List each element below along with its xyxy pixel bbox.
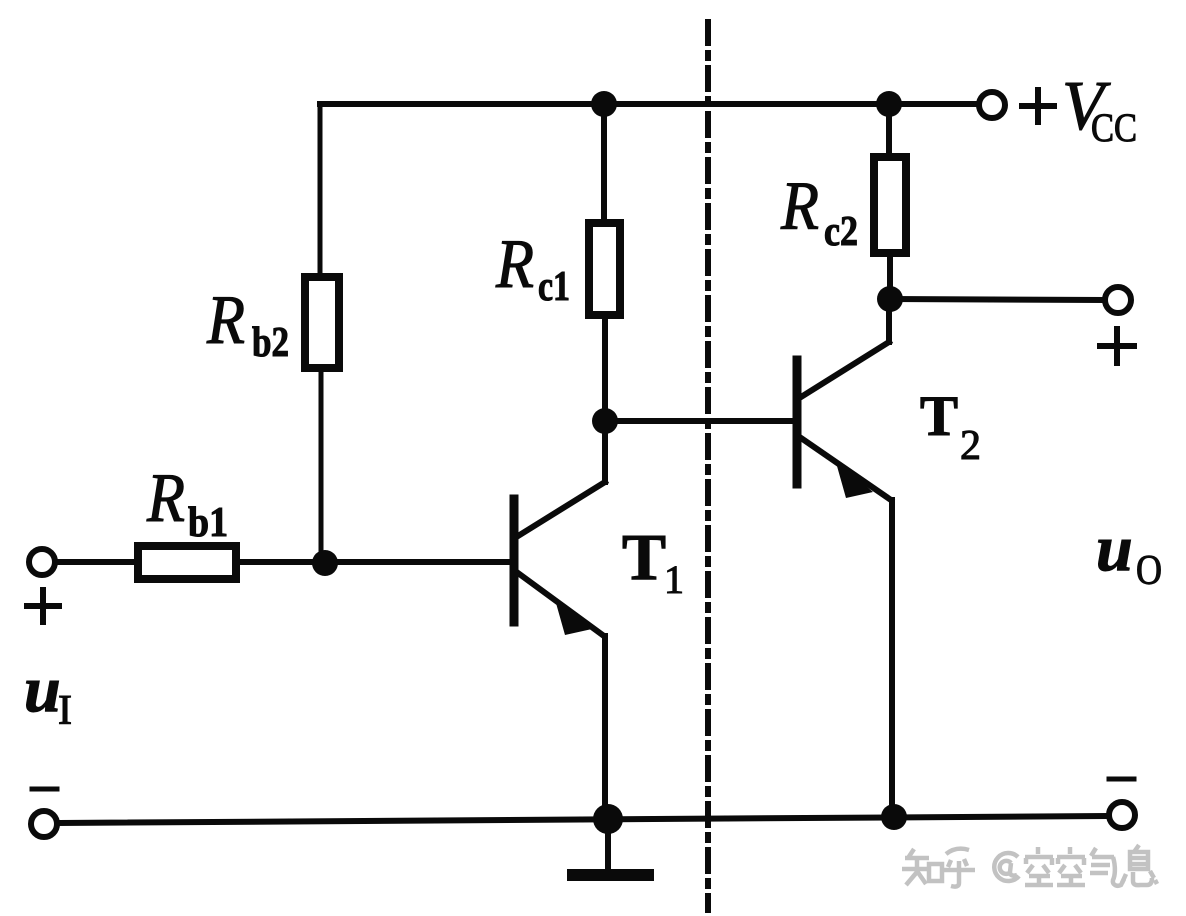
svg-text:R: R	[206, 282, 245, 359]
label T2	[920, 385, 981, 469]
transistor T2	[797, 342, 891, 500]
wire T2 collector up to output node	[886, 299, 892, 342]
resistor Rb1	[138, 546, 236, 579]
svg-text:R: R	[780, 168, 819, 244]
svg-text:I: I	[58, 688, 72, 734]
svg-text:O: O	[1136, 548, 1162, 594]
plus sign output	[1100, 329, 1134, 363]
wire Rc1 to node A	[602, 315, 608, 421]
svg-text:R: R	[495, 226, 534, 303]
terminal input minus	[31, 811, 57, 837]
terminal output minus	[1109, 802, 1135, 828]
wire top rail	[320, 101, 977, 107]
stage divider dash-dot line	[705, 22, 711, 910]
svg-text:c2: c2	[824, 209, 858, 255]
node A junction	[592, 408, 618, 434]
wire T1 collector to node A	[602, 421, 608, 482]
wire Rb1 to T1 base	[240, 559, 510, 565]
wire left branch from top rail down to Rb2	[318, 104, 323, 277]
label uO	[1096, 512, 1162, 594]
label Rb2	[206, 282, 289, 366]
svg-text:T: T	[920, 385, 958, 448]
wire node A to T2 base	[605, 418, 793, 424]
svg-text:2: 2	[960, 423, 981, 469]
terminal +Vcc	[979, 92, 1005, 118]
svg-text:u: u	[24, 653, 61, 726]
svg-text:R: R	[146, 460, 185, 537]
svg-text:T: T	[622, 521, 666, 594]
wire bottom rail	[60, 816, 1105, 823]
node output junction	[877, 286, 903, 312]
label Rb1	[146, 460, 228, 546]
svg-text:b1: b1	[188, 500, 228, 546]
label Rc1	[495, 226, 570, 310]
svg-text:CC: CC	[1091, 105, 1137, 150]
svg-text:1: 1	[664, 557, 684, 602]
minus sign output	[1109, 777, 1134, 782]
label +Vcc	[1062, 68, 1137, 150]
wire input terminal to Rb1	[57, 559, 134, 565]
svg-text:c1: c1	[538, 264, 570, 310]
resistor Rc2	[874, 157, 906, 253]
svg-text:u: u	[1096, 512, 1133, 585]
plus sign input	[27, 590, 59, 622]
label Rc2	[780, 168, 858, 255]
minus sign input	[32, 787, 57, 792]
node ground junction T2	[881, 804, 907, 830]
wire Rc2 to output node	[887, 253, 893, 299]
wire top rail to Rc1	[601, 104, 607, 223]
transistor T1	[514, 482, 605, 636]
svg-text:b2: b2	[252, 320, 289, 366]
watermark zhihu	[902, 845, 1157, 887]
node junction top of Rc2	[876, 91, 902, 117]
ground	[567, 819, 654, 881]
resistor Rb2	[305, 277, 339, 368]
resistor Rc1	[589, 223, 620, 315]
label T1	[622, 521, 684, 602]
terminal input plus	[29, 549, 55, 575]
wire T2 emitter down to bottom rail	[889, 500, 895, 817]
plus sign Vcc	[1022, 90, 1054, 122]
label uI	[24, 653, 72, 734]
wire Rb2 to input node	[319, 368, 324, 562]
node ground junction T1	[593, 804, 623, 834]
wire T1 emitter down to bottom rail	[602, 636, 608, 819]
terminal output plus	[1105, 287, 1131, 313]
node input junction	[312, 550, 338, 576]
wire output node to terminal	[890, 299, 1102, 300]
node junction top of Rc1	[591, 91, 617, 117]
wire top rail to Rc2	[886, 104, 892, 157]
